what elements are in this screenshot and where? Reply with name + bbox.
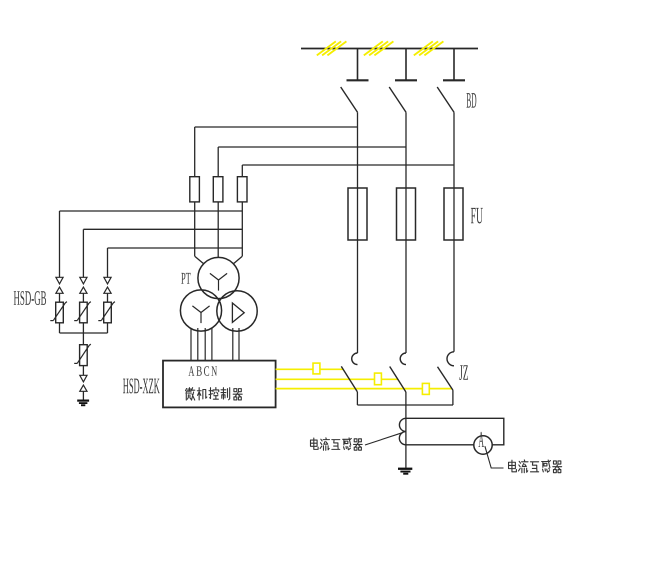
control wire 1 (yellow) xyxy=(276,368,343,370)
label BD xyxy=(467,93,477,108)
wire arrester feed 1 xyxy=(60,210,243,212)
label 电流互感器 (left) xyxy=(310,438,362,450)
wire varistor to bus 3 xyxy=(107,323,109,333)
control wire 3 (yellow) xyxy=(276,388,452,390)
wire PT secondary lead 4 xyxy=(211,328,213,361)
disconnect switch BD pole 3 xyxy=(437,49,465,113)
wire PT lead A xyxy=(194,202,196,256)
wire PT lead C xyxy=(241,202,243,256)
wire arrester feed 2 xyxy=(83,228,242,230)
bus energized hatch marks group 2 xyxy=(364,41,394,55)
label A B C N xyxy=(188,366,217,376)
controller box HSD-XZK xyxy=(163,361,276,408)
PT primary wye symbol xyxy=(210,273,227,290)
wire arrester feed 3 xyxy=(108,247,243,249)
contactor JZ pole 3 blade xyxy=(438,367,453,390)
wire JZ pole 2 to ground xyxy=(405,392,407,468)
control wire 2 (yellow) xyxy=(276,378,398,380)
wire arrester drop 2 xyxy=(82,229,84,277)
wire PT-fuse drop 2 xyxy=(217,147,219,177)
contactor JZ pole 2 fixed contact xyxy=(400,353,406,365)
PT fuse 2 xyxy=(213,177,223,202)
label JZ xyxy=(459,365,468,380)
label 微机控制器 xyxy=(186,388,243,401)
label PT xyxy=(181,273,190,284)
PT secondary winding circle xyxy=(180,290,221,331)
CT secondary loop xyxy=(406,418,504,445)
wire PT-fuse drop 3 xyxy=(241,165,243,177)
label FU xyxy=(471,208,483,224)
spark gap arrester 2 xyxy=(80,277,87,293)
spark gap arrester 3 xyxy=(104,277,111,293)
wire PT secondary lead 6 xyxy=(238,328,240,361)
CT winding arc 1 xyxy=(399,418,406,431)
wire PT lead B xyxy=(217,202,219,257)
contactor JZ pole 1 blade xyxy=(341,366,357,392)
bus energized hatch marks group 1 xyxy=(317,41,347,55)
spark gap arrester 1 xyxy=(56,277,63,293)
contactor JZ pole 1 fixed contact xyxy=(352,353,358,365)
label HSD-XZK xyxy=(123,378,160,393)
wire BD pole 1 to contactor xyxy=(357,112,359,353)
varistor HSD-GB 4 (neutral) xyxy=(74,344,91,366)
label 电流互感器 (right) xyxy=(509,460,562,473)
wire gap to varistor 1 xyxy=(59,293,61,302)
label HSD-GB xyxy=(14,291,46,305)
varistor HSD-GB 1 xyxy=(50,302,67,323)
wire PT lead C bend xyxy=(234,256,243,263)
varistor HSD-GB 3 xyxy=(98,302,115,323)
wire gap to varistor 2 xyxy=(82,293,84,302)
fuse FU2 xyxy=(397,188,416,240)
terminal block 1 (yellow) xyxy=(313,363,320,374)
wire PT secondary lead 3 xyxy=(204,328,206,361)
wire gap to ground xyxy=(82,391,84,399)
PT secondary wye symbol xyxy=(192,306,209,323)
wire JZ pole 3 bottom xyxy=(452,390,454,405)
wire PT lead B into circle xyxy=(217,256,219,259)
arrester common bus xyxy=(60,332,108,334)
wire BD pole 3 to contactor xyxy=(453,112,455,351)
ground (main) xyxy=(398,468,412,475)
varistor HSD-GB 2 xyxy=(74,302,91,323)
ground (arrester) xyxy=(77,400,89,407)
wire common drop xyxy=(82,333,84,345)
wire PT secondary lead 2 xyxy=(197,328,199,361)
wire PT secondary lead 5 xyxy=(232,328,234,361)
PT fuse 3 xyxy=(237,177,247,202)
wire BD pole 2 to contactor xyxy=(405,112,407,353)
main busbar xyxy=(301,48,478,50)
CT winding arc 2 xyxy=(399,432,406,445)
bus energized hatch marks group 3 xyxy=(414,41,444,55)
wire arrester drop 1 xyxy=(59,211,61,277)
wire JZ pole 1 bottom xyxy=(356,392,358,405)
wire arrester drop 3 xyxy=(107,248,109,277)
wire varistor to bus 2 xyxy=(82,323,84,333)
PT delta symbol xyxy=(232,303,244,322)
disconnect switch BD pole 1 xyxy=(341,49,369,113)
wire varistor 4 to gap xyxy=(82,366,84,376)
wire tap phase 2 xyxy=(218,146,406,148)
leader line ammeter xyxy=(485,446,504,468)
wire gap to varistor 3 xyxy=(107,293,109,302)
spark gap neutral xyxy=(80,375,87,391)
leader line left CT label xyxy=(365,433,402,445)
ammeter circle xyxy=(474,436,492,454)
PT open-delta winding circle xyxy=(217,291,257,331)
wire PT secondary lead 1 xyxy=(190,328,192,361)
ammeter A glyph xyxy=(478,432,483,447)
terminal block 3 (yellow) xyxy=(422,383,429,394)
terminal block 2 (yellow) xyxy=(375,373,382,385)
PT fuse 1 xyxy=(190,177,200,202)
wire varistor to bus 1 xyxy=(59,323,61,333)
disconnect switch BD pole 2 xyxy=(389,49,417,113)
wire PT lead A bend xyxy=(195,256,204,263)
fuse FU1 xyxy=(348,188,367,240)
wire PT-fuse drop 1 xyxy=(194,127,196,177)
contactor JZ pole 3 fixed contact xyxy=(447,352,454,366)
wire tap phase 1 xyxy=(195,126,358,128)
contactor JZ pole 2 blade xyxy=(390,367,406,393)
PT primary winding circle xyxy=(198,257,239,298)
wire tap phase 3 xyxy=(242,164,454,166)
fuse FU3 xyxy=(444,188,463,240)
JZ bottom bus xyxy=(357,404,453,406)
